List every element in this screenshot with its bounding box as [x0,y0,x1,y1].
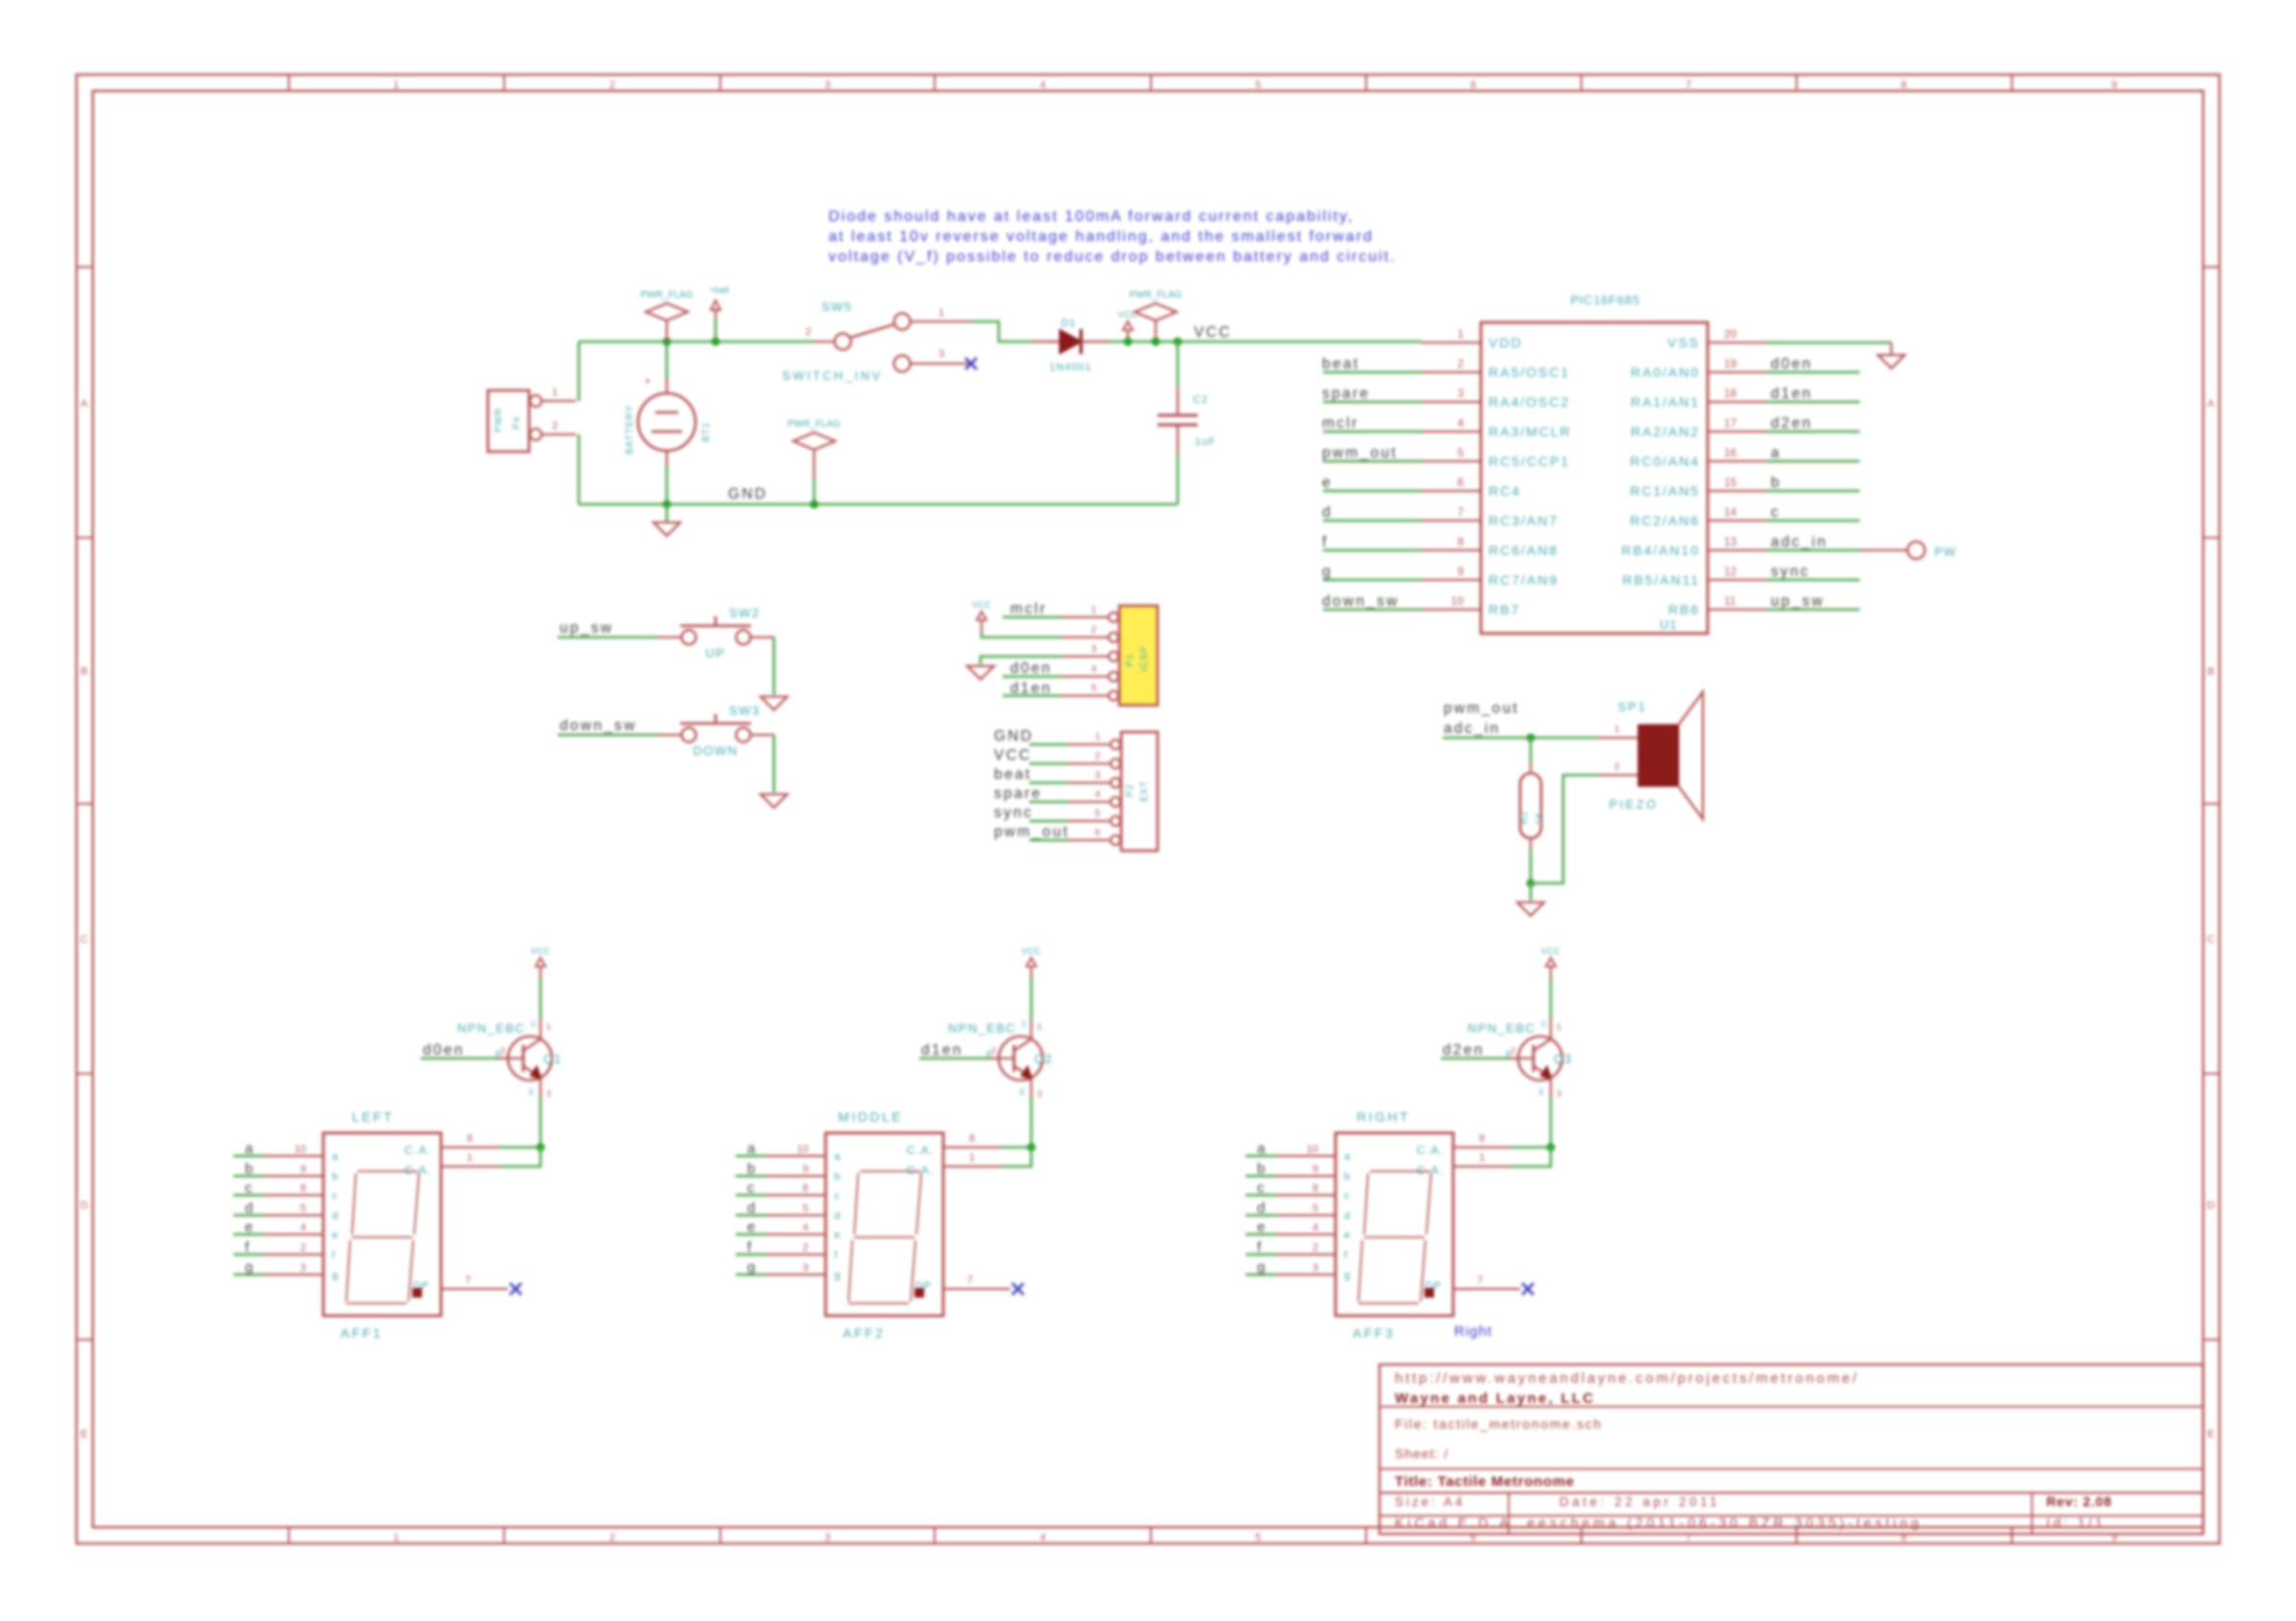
P1 pin 1 [1061,616,1108,618]
svg-text:4: 4 [1313,1222,1318,1233]
svg-text:C.A.: C.A. [1417,1144,1445,1157]
U1 pin 6 RC4 [1422,490,1481,492]
svg-text:up_sw: up_sw [560,620,613,636]
svg-text:4: 4 [1091,664,1096,675]
svg-text:PWR: PWR [494,408,504,433]
svg-text:2: 2 [1094,751,1100,762]
wire AFF1 CA bottom to emitter [499,1147,541,1166]
svg-text:RC1/AN5: RC1/AN5 [1630,483,1700,499]
svg-text:RA4/OSC2: RA4/OSC2 [1489,394,1570,410]
svg-text:d1en: d1en [1771,386,1813,402]
svg-text:e: e [1257,1219,1265,1235]
svg-text:10: 10 [295,1144,306,1155]
svg-text:20: 20 [1724,327,1737,341]
svg-text:E: E [2207,1429,2214,1440]
svg-text:P4: P4 [512,416,522,430]
U1 pin 13 RB4/AN10 [1708,549,1767,551]
svg-text:E: E [1020,1088,1025,1097]
svg-text:b: b [1771,475,1781,491]
svg-text:RC6/AN8: RC6/AN8 [1489,543,1558,558]
wire GND bottom [579,503,1178,506]
diode D1 [1031,341,1060,343]
wire segment net e [233,1233,264,1236]
svg-text:beat: beat [994,766,1031,783]
push button SW3 [657,734,681,736]
svg-text:RC4: RC4 [1489,483,1521,499]
wire segment net a [736,1155,766,1158]
svg-text:a: a [834,1151,841,1163]
svg-text:3: 3 [825,79,830,91]
wire AFF2 CA bottom to emitter [1002,1147,1031,1166]
svg-text:2: 2 [552,420,558,432]
svg-text:1: 1 [467,1152,473,1164]
svg-text:6: 6 [1470,79,1476,91]
svg-text:Wayne and Layne, LLC: Wayne and Layne, LLC [1395,1390,1596,1407]
wire R2 to ground [1530,848,1533,883]
svg-text:9: 9 [1457,565,1464,578]
svg-text:C.A.: C.A. [405,1164,432,1177]
svg-text:pwm_out: pwm_out [994,824,1070,840]
wire battery top to switch [579,341,814,344]
svg-text:Rev: 2.08: Rev: 2.08 [2046,1494,2112,1509]
svg-text:8: 8 [1313,1183,1318,1194]
wire battery bottom pin [666,466,669,504]
wire segment net b [1246,1175,1276,1178]
svg-text:d1en: d1en [921,1042,963,1058]
title block [1380,1365,2203,1534]
svg-text:2: 2 [500,1046,505,1055]
svg-text:9: 9 [2111,79,2117,91]
svg-text:d: d [1257,1200,1265,1216]
svg-text:at least 10v reverse voltage h: at least 10v reverse voltage handling, a… [828,229,1374,245]
transistor Q2 NPN_EBC [999,1036,1043,1080]
wire switch pin1 to diode [971,322,1031,342]
U1 pin 16 RC0/AN4 [1708,460,1767,462]
svg-text:g: g [747,1259,755,1276]
AFF2 pin 8 segment c [766,1194,826,1196]
svg-text:LEFT: LEFT [352,1109,394,1124]
AFF3 pin 5 segment d [1276,1214,1336,1216]
wire segment net g [736,1274,766,1277]
AFF2 pin 2 segment f [766,1254,826,1255]
resistor R2 [1530,764,1532,773]
wire net mclr to U1 pin 4 [1323,431,1422,433]
svg-text:RA0/AN0: RA0/AN0 [1631,365,1700,380]
VCC power symbol above Q3 [1550,966,1552,978]
svg-text:adc_in: adc_in [1444,721,1500,737]
wire VSS to ground [1767,342,1891,344]
wire SW2 to ground [773,637,776,695]
connector PW on adc_in [1860,549,1908,551]
junction battery bottom [663,500,672,509]
svg-text:adc_in: adc_in [1771,534,1827,550]
AFF1 pin 2 segment f [264,1254,323,1255]
AFF2 segment glyph [860,1170,920,1172]
no-connect AFF3 DP [1522,1283,1534,1295]
svg-text:15: 15 [1724,476,1737,489]
U1 pin 9 RC7/AN9 [1422,579,1481,581]
svg-text:c: c [1257,1180,1265,1196]
svg-text:5: 5 [300,1203,306,1214]
connector P4 power jack [488,390,529,452]
AFF3 pin 4 segment e [1276,1233,1336,1235]
P1 pin 2 [1061,636,1108,638]
svg-text:4: 4 [300,1222,306,1233]
svg-text:7: 7 [1477,1275,1483,1286]
svg-text:4: 4 [1040,79,1046,91]
svg-text:1: 1 [1037,1022,1042,1032]
U1 pin 18 RA1/AN1 [1708,401,1767,403]
svg-text:P1: P1 [1125,654,1136,667]
svg-text:1: 1 [393,79,399,91]
svg-text:8: 8 [300,1183,306,1194]
svg-text:C.A.: C.A. [907,1144,935,1157]
wire segment net f [736,1254,766,1256]
AFF1 pin 10 segment a [264,1155,323,1157]
svg-text:f: f [1322,534,1329,550]
wire net up_sw from U1 pin 11 [1767,609,1860,611]
svg-text:Title: Tactile Metronome: Title: Tactile Metronome [1395,1474,1575,1490]
svg-text:SWITCH_INV: SWITCH_INV [782,368,882,383]
wire VCC to Q3 collector [1550,978,1553,1019]
AFF3 pin 1 common anode [1453,1166,1512,1167]
VCC power symbol on wire [1127,330,1129,342]
svg-text:11: 11 [1724,594,1736,608]
svg-text:9: 9 [1313,1164,1318,1175]
svg-text:2: 2 [806,326,811,338]
svg-text:VCC: VCC [1194,324,1232,341]
svg-text:SW5: SW5 [822,300,853,314]
junction capacitor branch [1174,338,1182,346]
wire Q1 emitter down [540,1098,542,1147]
svg-text:AFF1: AFF1 [341,1325,383,1341]
AFF3 pin 3 segment g [1276,1274,1336,1276]
svg-text:RB6: RB6 [1668,602,1700,617]
svg-text:http://www.wayneandlayne.com/p: http://www.wayneandlayne.com/projects/me… [1395,1370,1859,1387]
svg-text:1: 1 [1094,732,1100,743]
svg-text:SW2: SW2 [729,606,761,620]
svg-text:PWR_FLAG: PWR_FLAG [640,290,693,300]
svg-text:PWR_FLAG: PWR_FLAG [1129,290,1181,300]
svg-text:8: 8 [467,1133,473,1144]
U1 pin 8 RC6/AN8 [1422,549,1481,551]
P2 pin 6 net pwm_out [1068,839,1110,841]
wire R2 bottom to speaker pin2 [1531,775,1599,883]
wire segment net f [233,1254,264,1256]
svg-text:PWR_FLAG: PWR_FLAG [787,419,840,430]
svg-text:mclr: mclr [1322,415,1358,432]
7-segment display AFF1 [323,1133,441,1316]
svg-text:5: 5 [1255,1532,1261,1543]
svg-text:a: a [1344,1151,1351,1163]
svg-text:RC3/AN7: RC3/AN7 [1489,513,1558,528]
U1 pin 1 VDD [1422,342,1481,344]
svg-text:c: c [1344,1190,1350,1202]
svg-text:C2: C2 [1193,394,1208,406]
wire segment net c [1246,1194,1276,1197]
svg-text:DOWN: DOWN [693,744,738,758]
+BATT power symbol [715,320,717,342]
U1 pin 7 RC3/AN7 [1422,520,1481,522]
svg-text:2: 2 [1614,762,1620,772]
push button SW2 [657,636,681,638]
wire net a from U1 pin 16 [1767,460,1860,463]
svg-text:d2en: d2en [1443,1042,1485,1058]
svg-text:Date: 22 apr 2011: Date: 22 apr 2011 [1559,1495,1720,1509]
svg-text:SP1: SP1 [1618,699,1647,714]
svg-text:Q2: Q2 [1034,1052,1052,1066]
svg-text:d0en: d0en [1010,660,1052,677]
wire AFF3 CA top to emitter [1512,1146,1551,1149]
no-connect switch pin 3 [965,358,977,369]
wire segment net d [1246,1214,1276,1217]
svg-text:1: 1 [938,307,944,319]
transistor Q3 NPN_EBC [1518,1036,1562,1080]
svg-text:1: 1 [1091,605,1096,615]
svg-text:NPN_EBC: NPN_EBC [1468,1021,1535,1035]
svg-text:2: 2 [1511,1046,1515,1055]
svg-text:VCC: VCC [1541,946,1561,956]
no-connect AFF1 DP [510,1283,521,1295]
AFF3 pin 10 segment a [1276,1155,1336,1157]
svg-text:EXT: EXT [1139,781,1150,802]
wire segment net a [1246,1155,1276,1158]
wire Q3 emitter down [1550,1098,1553,1147]
svg-text:P2: P2 [1125,784,1136,797]
svg-text:g: g [245,1259,253,1276]
power flag on VCC [1155,321,1157,342]
svg-text:7: 7 [1457,505,1464,519]
ground symbol below R2 [1517,902,1544,916]
AFF1 pin 7 DP [441,1288,508,1290]
svg-text:e: e [1344,1230,1350,1241]
wire net b from U1 pin 15 [1767,490,1860,493]
svg-text:1: 1 [552,387,558,398]
svg-text:A: A [80,398,88,410]
AFF2 pin 7 DP [943,1288,1010,1290]
P2 pin 2 net VCC [1068,763,1110,765]
wire up_sw to SW2 [558,636,657,639]
ground symbol at VSS [1890,343,1892,354]
svg-text:13: 13 [1724,535,1737,548]
svg-text:18: 18 [1724,387,1737,400]
wire d0en to P1 pin4 [1003,676,1061,678]
svg-text:d: d [834,1210,840,1222]
svg-text:d: d [245,1200,253,1216]
svg-text:RC0/AN4: RC0/AN4 [1630,454,1700,469]
wire battery left vertical upper [578,342,581,401]
wire net down_sw to U1 pin 10 [1323,609,1422,611]
svg-text:2: 2 [609,1532,615,1543]
svg-text:Size: A4: Size: A4 [1395,1495,1466,1509]
svg-text:8: 8 [803,1183,808,1194]
svg-text:3: 3 [1094,770,1100,781]
svg-text:a: a [1771,445,1781,461]
wire segment net a [233,1155,264,1158]
connector P2 EXT [1121,732,1158,851]
P2 pin 5 net sync [1068,820,1110,822]
svg-text:7: 7 [967,1275,973,1286]
svg-text:sync: sync [994,805,1033,821]
svg-text:d0en: d0en [423,1042,465,1058]
svg-text:PW: PW [1934,544,1956,559]
AFF2 pin 10 segment a [766,1155,826,1157]
svg-text:a: a [332,1151,339,1163]
svg-text:19: 19 [1724,357,1737,370]
U1 pin 2 RA5/OSC1 [1422,371,1481,373]
AFF2 pin 5 segment d [766,1214,826,1216]
U1 pin 3 RA4/OSC2 [1422,401,1481,403]
wire net c from U1 pin 14 [1767,520,1860,522]
svg-text:spare: spare [1322,386,1370,402]
svg-text:5: 5 [1094,809,1100,819]
wire segment net g [233,1274,264,1277]
svg-text:c: c [332,1190,338,1202]
junction emitter CA [1547,1144,1556,1152]
svg-text:2: 2 [609,79,615,91]
wire ground to P1 pin3 [981,656,1061,664]
P2 pin 4 net spare [1068,801,1110,803]
wire battery top pin [666,342,669,378]
svg-text:up_sw: up_sw [1771,593,1824,610]
U1 pin 19 RA0/AN0 [1708,371,1767,373]
svg-text:g: g [1344,1270,1350,1281]
svg-text:1: 1 [393,1532,399,1543]
wire segment net e [736,1233,766,1236]
AFF1 pin 9 segment b [264,1175,323,1177]
svg-text:c: c [245,1180,253,1196]
svg-text:D: D [2207,1200,2215,1211]
IC U1 PIC16F685 body [1481,322,1708,633]
svg-text:VCC: VCC [972,600,992,610]
AFF1 pin 8 common anode [441,1146,499,1148]
svg-text:BATTERY: BATTERY [625,405,635,455]
wire down_sw to SW3 [558,734,657,737]
svg-text:e: e [834,1230,840,1241]
junction emitter CA [537,1144,545,1152]
AFF3 pin 8 segment c [1276,1194,1336,1196]
svg-text:Diode should have at least 100: Diode should have at least 100mA forward… [828,209,1354,225]
AFF1 pin 4 segment e [264,1233,323,1235]
svg-text:RB7: RB7 [1489,602,1520,617]
svg-text:KiCad E.D.A. eeschema (2011-0: KiCad E.D.A. eeschema (2011-06-30 BZR 30… [1395,1515,1923,1530]
wire mclr to P1 pin1 [1003,616,1061,619]
svg-text:3: 3 [1037,1089,1042,1099]
svg-text:RA2/AN2: RA2/AN2 [1631,424,1700,439]
AFF3 pin 7 DP [1453,1288,1520,1290]
svg-text:e: e [245,1219,253,1235]
ground symbol P1 [967,666,994,679]
AFF2 pin 1 common anode [943,1166,1002,1167]
junction R2 top [1527,734,1535,743]
svg-text:7: 7 [465,1275,471,1286]
svg-text:voltage (V_f) possible to redu: voltage (V_f) possible to reduce drop be… [828,249,1397,265]
svg-text:C: C [1022,1020,1027,1029]
VCC power symbol above Q1 [540,966,541,978]
svg-text:d: d [747,1200,755,1216]
svg-text:GND: GND [994,728,1033,744]
svg-text:VCC: VCC [994,747,1032,764]
svg-text:5: 5 [803,1203,808,1214]
capacitor C2 [1177,342,1180,387]
svg-text:+: + [644,374,651,388]
svg-text:RC7/AN9: RC7/AN9 [1489,572,1558,588]
svg-text:.1uF: .1uF [1191,436,1216,448]
svg-text:d1en: d1en [1010,680,1052,697]
svg-text:a: a [747,1141,756,1157]
svg-text:D: D [80,1200,88,1211]
svg-text:d: d [1322,504,1333,521]
svg-text:b: b [332,1171,338,1183]
svg-text:1N4001: 1N4001 [1049,362,1093,373]
wire Q2 emitter down [1030,1098,1033,1147]
wire VCC to Q2 collector [1030,978,1033,1019]
svg-text:b: b [747,1161,755,1177]
svg-text:3: 3 [803,1262,808,1274]
svg-text:VCC: VCC [531,946,551,956]
svg-text:UP: UP [705,646,725,660]
wire net f to U1 pin 8 [1323,549,1422,552]
svg-text:8: 8 [1479,1133,1485,1144]
svg-text:2: 2 [991,1046,996,1055]
svg-text:g: g [1257,1259,1265,1276]
wire AFF1 CA top to emitter [499,1146,541,1149]
svg-text:2: 2 [803,1242,808,1254]
svg-text:2: 2 [300,1242,306,1254]
svg-text:g: g [834,1270,840,1281]
svg-text:17: 17 [1724,416,1737,430]
wire VCC net [1109,341,1422,344]
battery BT1 [666,378,668,394]
wire net d to U1 pin 7 [1323,520,1422,522]
svg-text:C: C [531,1020,537,1029]
wire net d1en from U1 pin 18 [1767,401,1860,404]
svg-text:3: 3 [938,348,944,360]
svg-text:1: 1 [1556,1022,1561,1032]
VCC symbol for P1 pin2 [981,620,982,632]
svg-text:a: a [1257,1141,1266,1157]
wire net beat to U1 pin 2 [1323,371,1422,374]
AFF1 pin 8 segment c [264,1194,323,1196]
AFF2 pin 3 segment g [766,1274,826,1276]
transistor Q1 NPN_EBC [508,1036,552,1080]
svg-text:A: A [2207,398,2215,410]
wire segment net c [233,1194,264,1197]
svg-text:pwm_out: pwm_out [1444,700,1519,717]
svg-text:E: E [1539,1088,1544,1097]
svg-text:c: c [834,1190,840,1202]
svg-text:3: 3 [1313,1262,1318,1274]
svg-text:U1: U1 [1660,617,1678,632]
wire AFF3 CA bottom to emitter [1512,1147,1551,1166]
7-segment display AFF3 [1336,1133,1453,1316]
junction +BATT [712,338,720,346]
svg-text:ICSP: ICSP [1139,646,1150,672]
svg-text:VSS: VSS [1667,335,1700,350]
power flag above battery [666,321,668,342]
svg-text:C: C [2207,934,2215,945]
svg-text:e: e [747,1219,755,1235]
U1 pin 12 RB5/AN11 [1708,579,1767,581]
junction VCC symbol [1124,338,1133,346]
svg-text:8: 8 [1457,535,1464,548]
AFF3 pin 2 segment f [1276,1254,1336,1255]
svg-text:beat: beat [1322,356,1359,372]
VCC power symbol above Q2 [1030,966,1032,978]
wire segment net e [1246,1233,1276,1236]
no-connect AFF2 DP [1012,1283,1024,1295]
wire d2en to Q3 base [1441,1057,1509,1060]
